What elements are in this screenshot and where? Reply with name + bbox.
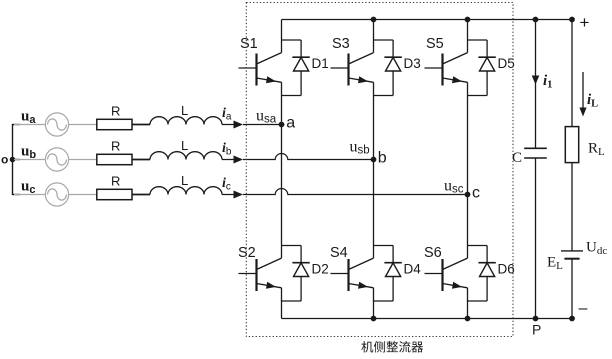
svg-text:D2: D2 [312, 262, 329, 277]
transistor S4 [331, 246, 374, 302]
resistor R phase b [97, 154, 132, 164]
wire phase a source segment [14, 124, 97, 126]
svg-text:S1: S1 [240, 36, 258, 52]
node c [465, 185, 480, 202]
wire R to L phase a [132, 124, 150, 126]
svg-text:o: o [1, 153, 8, 167]
node o bus wire [12, 125, 20, 195]
svg-text:+: + [580, 13, 590, 32]
label rectifier (Chinese: machine-side rectifier) [361, 341, 423, 353]
wire leg2 bottom [373, 300, 375, 319]
wire leg1 middle [281, 96, 283, 246]
svg-text:L: L [181, 103, 188, 118]
junction bottom rail leg3 [465, 316, 471, 322]
wire L to bridge phase c [222, 194, 241, 196]
diode D2 [282, 246, 310, 302]
svg-text:R: R [111, 174, 120, 189]
resistor R phase c [97, 189, 132, 199]
diode D1 [282, 40, 310, 96]
svg-text:R: R [111, 104, 120, 119]
svg-text:L: L [181, 138, 188, 153]
wire phase a to node a [243, 124, 282, 126]
wire leg1 bottom [281, 300, 283, 319]
wire leg2 middle [373, 96, 375, 246]
wire capacitor branch bottom [535, 158, 537, 319]
wire R to L phase c [132, 194, 150, 196]
svg-text:a: a [286, 115, 295, 132]
svg-text:S2: S2 [238, 245, 256, 261]
wire load branch top [571, 20, 573, 127]
resistor RL [565, 127, 578, 163]
wire RL to battery [571, 163, 573, 251]
wire leg2 top [373, 20, 375, 41]
svg-text:D4: D4 [404, 262, 422, 277]
inductor L phase b [150, 152, 222, 160]
current arrow ib [234, 156, 244, 164]
wire phase c source segment [14, 194, 97, 196]
wire phase c to node c (hop over leg 1) [243, 189, 468, 195]
junction top rail leg3 [465, 17, 471, 23]
wire top rail [282, 19, 573, 21]
svg-text:D1: D1 [312, 56, 329, 71]
transistor S6 [425, 246, 468, 302]
voltage source uc [45, 183, 68, 206]
svg-text:S5: S5 [426, 36, 444, 52]
svg-text:D3: D3 [404, 56, 421, 71]
junction bottom rail corner [569, 316, 575, 322]
voltage source ub [45, 148, 68, 171]
current arrow iL [579, 72, 586, 117]
transistor S5 [425, 40, 468, 96]
junction top rail corner [569, 17, 575, 23]
svg-text:D6: D6 [498, 262, 515, 277]
diode D3 [374, 40, 402, 96]
svg-text:S4: S4 [330, 245, 348, 261]
wire leg3 middle [467, 96, 469, 246]
transistor S1 [239, 40, 282, 96]
svg-text:S6: S6 [424, 245, 442, 261]
current arrow i1 [532, 76, 540, 85]
current arrow ic [234, 191, 244, 199]
wire L to bridge phase b [222, 159, 241, 161]
svg-text:D5: D5 [498, 56, 515, 71]
transistor S2 [239, 246, 282, 302]
current arrow ia [234, 121, 244, 129]
svg-text:P: P [532, 322, 541, 338]
node a [279, 115, 296, 132]
capacitor C [524, 148, 547, 158]
svg-text:b: b [378, 150, 387, 167]
diode D4 [374, 246, 402, 302]
wire L to bridge phase a [222, 124, 241, 126]
resistor R phase a [97, 119, 132, 129]
wire phase b source segment [14, 159, 97, 161]
svg-text:c: c [472, 185, 480, 202]
rectifier boundary (dashed box) [246, 3, 513, 337]
svg-text:–: – [579, 300, 588, 317]
wire phase b to node b (hop over leg 1) [243, 154, 374, 160]
wire bottom rail [282, 318, 573, 320]
node o [1, 153, 15, 167]
inductor L phase a [150, 117, 222, 125]
svg-text:R: R [111, 139, 120, 154]
wire battery to bottom rail [571, 259, 573, 319]
diode D5 [468, 40, 496, 96]
inductor L phase c [150, 187, 222, 195]
wire leg1 top [281, 20, 283, 41]
wire capacitor branch top [535, 20, 537, 149]
wire leg3 top [467, 20, 469, 41]
wire R to L phase b [132, 159, 150, 161]
junction bottom rail leg2 [371, 316, 377, 322]
wire leg3 bottom [467, 300, 469, 319]
transistor S3 [331, 40, 374, 96]
junction top rail leg2 [371, 17, 377, 23]
svg-text:S3: S3 [332, 36, 350, 52]
junction top rail capacitor [533, 17, 539, 23]
node P [532, 316, 541, 338]
battery EL [561, 251, 583, 259]
voltage source ua [45, 113, 68, 136]
diode D6 [468, 246, 496, 302]
svg-text:L: L [181, 173, 188, 188]
node b [371, 150, 387, 167]
